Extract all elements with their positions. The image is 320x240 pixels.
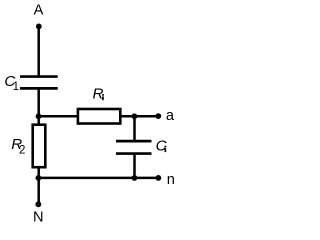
svg-text:2: 2 (19, 145, 25, 157)
svg-text:R: R (93, 86, 104, 103)
node junction right (132, 113, 138, 119)
wire junction to Ri (39, 115, 78, 118)
wire A to C1 (37, 26, 40, 75)
node junction bottom-right (132, 175, 138, 181)
wire Ci to bottom (133, 154, 136, 178)
wire R2 to bottom (37, 168, 40, 204)
svg-text:A: A (34, 2, 44, 18)
terminal dot A (36, 24, 42, 30)
svg-text:N: N (33, 210, 44, 226)
resistor R2 (33, 125, 46, 168)
svg-text:n: n (167, 172, 175, 188)
terminal dot a (155, 113, 161, 119)
svg-text:1: 1 (13, 81, 19, 93)
svg-text:a: a (166, 108, 175, 124)
capacitor C1 (20, 77, 58, 89)
terminal dot N (35, 201, 41, 207)
node junction bottom-left (36, 175, 42, 181)
bottom wire (39, 177, 159, 180)
wire Ri to terminal a (121, 115, 159, 118)
resistor Ri (78, 109, 120, 124)
capacitor Ci (116, 141, 152, 153)
wire C1 to R2 (37, 88, 40, 124)
wire junction down to Ci (133, 116, 136, 140)
terminal dot n (155, 175, 161, 181)
node junction left (36, 113, 42, 119)
